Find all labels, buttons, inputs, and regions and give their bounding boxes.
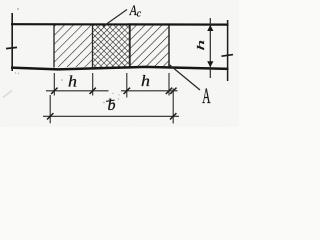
svg-text:b: b bbox=[108, 97, 116, 114]
svg-text:h: h bbox=[141, 72, 150, 90]
svg-text:h: h bbox=[68, 72, 77, 90]
svg-text:c: c bbox=[137, 8, 142, 20]
svg-text:h: h bbox=[194, 40, 206, 51]
svg-text:A: A bbox=[202, 83, 210, 108]
